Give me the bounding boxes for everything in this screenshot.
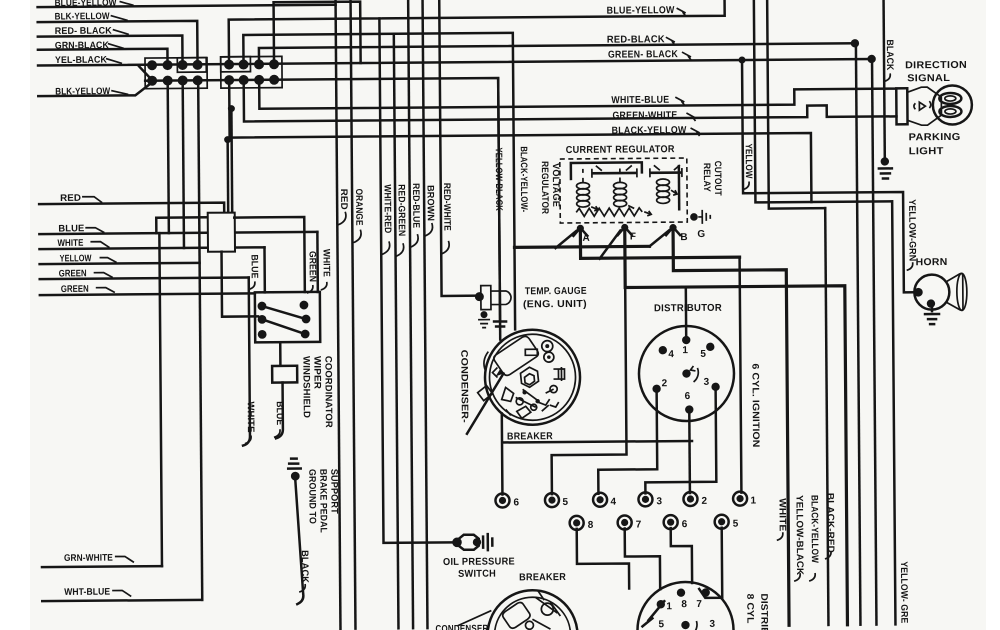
wire WHT-BLUE [42, 600, 202, 601]
svg-text:VOLTAGE: VOLTAGE [550, 163, 561, 207]
ignition terminal rings row1 [495, 491, 756, 508]
wire WHITE-RED vertical to oil switch [379, 18, 452, 543]
label GREEN rotated [307, 251, 318, 293]
svg-text:ORANGE: ORANGE [353, 189, 364, 226]
svg-text:SIGNAL: SIGNAL [907, 73, 950, 84]
svg-text:WHITE-RED: WHITE-RED [381, 184, 392, 233]
wire GREEN-BLACK bus right end [872, 59, 876, 625]
label BLACK-RED rotated right [824, 493, 836, 559]
label YELLOW rotated [743, 144, 754, 190]
label ORANGE rotated [353, 189, 364, 243]
ignition resistor block [208, 213, 235, 252]
horn ground [925, 307, 939, 324]
svg-text:YELLOW: YELLOW [743, 144, 754, 179]
svg-text:BLACK: BLACK [299, 550, 310, 583]
svg-text:DISTRIBUTOR: DISTRIBUTOR [758, 593, 770, 630]
svg-text:GREEN- BLACK: GREEN- BLACK [608, 49, 679, 61]
cutout coil [656, 179, 677, 204]
label BLACK-YELLOW [612, 125, 700, 137]
wire BLUE-YELLOW right run [229, 0, 725, 65]
wire RED-BLUE vertical [408, 0, 413, 628]
svg-text:SWITCH: SWITCH [458, 569, 496, 580]
label CONDENSER rotated [458, 349, 504, 433]
wire right bundle vertical [825, 208, 828, 625]
label OIL PRESSURE SWITCH [443, 556, 515, 580]
svg-text:8: 8 [681, 599, 687, 610]
wire BLK-YELLOW 2 [38, 82, 152, 96]
wire RED [39, 203, 224, 214]
wire BLUE-YELLOW top [38, 5, 336, 7]
temp gauge ground [478, 311, 490, 328]
wire RED-BLACK right run to regulator drop [243, 33, 515, 332]
regulator top wire [571, 162, 642, 179]
svg-text:6: 6 [685, 391, 691, 402]
svg-text:SUPPORT: SUPPORT [328, 469, 339, 514]
terminal B [666, 224, 688, 243]
svg-text:GREEN: GREEN [307, 251, 318, 282]
wire GRN-BLACK label [55, 40, 124, 52]
svg-text:RED: RED [338, 189, 349, 210]
svg-text:BLACK-YELLOW: BLACK-YELLOW [808, 495, 820, 563]
svg-text:2: 2 [662, 378, 668, 389]
wire BLUE label [58, 223, 104, 234]
svg-text:BREAKER: BREAKER [507, 431, 553, 442]
svg-text:WHITE: WHITE [320, 249, 331, 277]
svg-text:CONDENSER: CONDENSER [435, 624, 488, 630]
wire drop to ignition resistor [226, 140, 229, 213]
wire F to ring5 [550, 288, 627, 495]
svg-text:A: A [582, 233, 589, 244]
svg-text:WHITE: WHITE [776, 498, 787, 531]
svg-text:WHITE: WHITE [245, 401, 256, 432]
svg-text:BLACK-RED: BLACK-RED [824, 493, 835, 553]
oil pressure switch [452, 534, 492, 550]
svg-text:6: 6 [682, 519, 688, 530]
wire stub top [274, 2, 361, 65]
wire pin6 to ring2 [688, 413, 691, 493]
wire WHITE label [57, 238, 109, 249]
svg-text:YELLOW-BLACK-: YELLOW-BLACK- [493, 147, 505, 213]
wire diagonals into 8cyl [642, 601, 664, 626]
wire GRN-WHITE riser [159, 233, 162, 566]
label TEMP GAUGE [523, 286, 587, 311]
breaker 2 circle [457, 590, 578, 630]
svg-text:YELLOW- GRE: YELLOW- GRE [898, 561, 909, 623]
svg-text:B: B [680, 232, 687, 243]
svg-text:BREAKER: BREAKER [519, 572, 567, 583]
svg-text:BLUE: BLUE [274, 401, 285, 425]
wire YELLOW run / horn feed [742, 59, 915, 294]
svg-text:CURRENT REGULATOR: CURRENT REGULATOR [566, 144, 676, 156]
label WHITE rotated right [776, 498, 787, 540]
wire RED label [60, 193, 102, 204]
svg-text:BLUE: BLUE [249, 254, 260, 278]
svg-text:DISTRIBUTOR: DISTRIBUTOR [654, 303, 723, 315]
terminal A [573, 225, 589, 244]
connector block C1 [139, 58, 207, 89]
svg-text:YELLOW-GRN: YELLOW-GRN [906, 199, 917, 261]
wire YEL-BLACK row1 bus [38, 59, 872, 66]
temp gauge [475, 285, 511, 309]
svg-text:WIPER: WIPER [311, 356, 322, 389]
wire A to ring 1 [580, 231, 739, 259]
svg-text:CUTOUT: CUTOUT [712, 161, 723, 196]
cutout contact bar [650, 165, 682, 177]
label BROWN rotated [424, 185, 435, 236]
svg-text:BRAKE PEDAL: BRAKE PEDAL [317, 469, 329, 533]
label YELLOW-BLACK rotated right [793, 495, 805, 581]
wire from C1 down left long [198, 85, 202, 600]
wire ORANGE vertical [351, 0, 356, 629]
svg-text:F: F [630, 231, 636, 242]
label BLUE rotated lower [274, 401, 285, 437]
label BLACK rotated right [884, 39, 895, 81]
wire BLACK right [884, 0, 885, 161]
label PARKING LIGHT [909, 132, 961, 157]
regulator coil 2 [613, 182, 634, 208]
wire box to wiper motor [279, 342, 282, 365]
svg-text:8: 8 [588, 520, 594, 531]
label GROUND TO BRAKE PEDAL SUPPORT rotated [306, 469, 340, 533]
svg-text:3: 3 [656, 496, 662, 507]
wire pin1 riser [685, 287, 688, 340]
label YELLOW-GRE rotated right [898, 561, 909, 623]
svg-text:4: 4 [668, 349, 674, 360]
wire BLACK to brake pedal [295, 480, 303, 604]
label WHITE rotated lower [245, 401, 256, 443]
cutout right wire [678, 166, 681, 209]
svg-text:YELLOW-BLACK: YELLOW-BLACK [793, 495, 805, 575]
label BLUE rotated [249, 254, 260, 289]
svg-text:TEMP. GAUGE: TEMP. GAUGE [525, 286, 587, 297]
label WHITE rotated [320, 249, 331, 290]
label BLACK-YELLOW rotated [518, 146, 530, 212]
label WHITE-RED rotated [381, 184, 393, 254]
wire YELLOW [40, 263, 200, 264]
wire pin2 to ring4 [598, 392, 658, 493]
svg-text:GREEN-WHITE: GREEN-WHITE [612, 110, 677, 122]
label BLUE-YELLOW right [607, 5, 686, 17]
wire F diagonal [599, 231, 620, 259]
svg-text:7: 7 [636, 519, 642, 530]
wire GRN-BLACK left [38, 49, 168, 61]
wire BLUE-YELLOW top-left label [55, 0, 134, 9]
svg-text:RED-GREEN: RED-GREEN [395, 184, 406, 236]
wire BLK-YELLOW 2 label [55, 86, 128, 98]
wire relay bottom to box [222, 251, 259, 316]
regulator resistor [576, 208, 651, 217]
distributor 8cyl circle [637, 582, 734, 630]
wiper switch box [255, 292, 320, 343]
wire GRN-WHITE label [64, 552, 134, 564]
ground below BLACK [879, 157, 892, 178]
wiper motor block [272, 366, 297, 383]
svg-text:1: 1 [666, 601, 672, 612]
wire RED-WHITE vertical to temp gauge [439, 0, 479, 296]
wire ring7 to 8cyl [625, 528, 660, 589]
wire GRN-BLACK / RED-BLACK bus right [259, 43, 857, 64]
svg-text:5: 5 [658, 619, 664, 630]
distributor 6cyl circle [639, 326, 735, 422]
svg-text:RELAY: RELAY [701, 163, 712, 193]
svg-text:RED: RED [60, 193, 81, 204]
label VOLTAGE REGULATOR rotated [539, 161, 561, 214]
regulator coil 1 [576, 183, 598, 211]
distributor pins [652, 336, 720, 414]
wire WHITE-BLUE run [259, 75, 896, 109]
label WINDSHIELD WIPER COORDINATOR rotated [300, 356, 334, 428]
svg-text:G: G [697, 229, 705, 240]
svg-text:5: 5 [562, 497, 568, 508]
wire BLK-YELLOW label [55, 11, 128, 23]
svg-text:5: 5 [700, 349, 706, 360]
svg-text:COORDINATOR: COORDINATOR [322, 356, 334, 428]
svg-text:6 CYL. IGNITION: 6 CYL. IGNITION [749, 363, 761, 447]
ignition terminal rings row2 [570, 515, 739, 531]
wire GREEN 2 [40, 293, 255, 295]
direction signal lamp [896, 85, 972, 125]
svg-text:4: 4 [610, 497, 616, 508]
wire B diagonal bus [514, 246, 649, 247]
label YELLOW-BLACK rotated [493, 147, 505, 213]
svg-text:DIRECTION: DIRECTION [905, 60, 967, 71]
label RED-GREEN rotated [395, 184, 407, 256]
junction dot [867, 55, 875, 63]
wire GREEN drop with hook [242, 277, 250, 445]
breaker 6cyl circle [477, 329, 580, 425]
wire BLK-YELLOW [38, 21, 198, 61]
label YELLOW-GRN rotated [906, 199, 918, 270]
wire from C1 to WHITE [183, 85, 184, 248]
svg-text:RED-WHITE: RED-WHITE [441, 183, 452, 231]
label WHITE-BLUE [611, 95, 684, 107]
svg-text:BLACK-YELLOW-: BLACK-YELLOW- [518, 146, 530, 212]
wire breaker to ring6 [502, 412, 693, 494]
label BLACK rotated [299, 550, 310, 592]
wire drop to box top [263, 247, 266, 292]
wire to right bundle drop [767, 0, 825, 209]
svg-text:RED-BLACK: RED-BLACK [607, 34, 666, 45]
svg-text:GROUND TO: GROUND TO [306, 469, 317, 524]
svg-text:BLACK: BLACK [884, 39, 895, 70]
wire GREEN-WHITE run [244, 75, 897, 122]
svg-text:3: 3 [704, 377, 710, 388]
label RED-BLUE rotated [410, 183, 422, 247]
svg-text:WHITE: WHITE [57, 238, 83, 249]
svg-text:GRN-WHITE: GRN-WHITE [64, 553, 113, 564]
svg-text:WHT-BLUE: WHT-BLUE [64, 587, 110, 598]
wire F run [625, 229, 848, 627]
wire ring6b to 8cyl [671, 528, 692, 583]
svg-text:1: 1 [750, 495, 756, 506]
wire RED-BLACK left [38, 35, 183, 61]
junction dot [851, 39, 859, 47]
wire resistor to wiper switch GREEN [234, 217, 305, 293]
connector block C2 [221, 56, 282, 88]
svg-text:BLUE-YELLOW: BLUE-YELLOW [607, 5, 675, 17]
wire ring5b to 8cyl [699, 528, 723, 598]
wire RED-BLACK label [55, 25, 129, 37]
svg-text:BLACK-YELLOW: BLACK-YELLOW [612, 125, 687, 137]
terminal F [618, 224, 636, 243]
wire WHITE [39, 247, 264, 249]
horn [914, 273, 967, 310]
wire RED-BLACK bus right end [856, 43, 861, 624]
wire BROWN vertical [423, 0, 428, 628]
regulator contact bar 1 [592, 165, 637, 177]
label GREEN-WHITE [612, 110, 695, 122]
label GREEN-BLACK right [608, 49, 691, 61]
svg-text:REGULATOR: REGULATOR [539, 161, 550, 214]
svg-text:WINDSHIELD: WINDSHIELD [300, 356, 311, 418]
svg-text:7: 7 [696, 599, 702, 610]
svg-text:6: 6 [513, 497, 519, 508]
wire to wiper switch WHITE [316, 232, 319, 292]
svg-text:WHITE-BLUE: WHITE-BLUE [611, 95, 669, 106]
wire row2 bus [145, 78, 500, 322]
wire WHT-BLUE label [64, 586, 131, 598]
svg-text:(ENG. UNIT): (ENG. UNIT) [523, 299, 587, 311]
svg-text:BROWN: BROWN [424, 185, 435, 221]
svg-text:OIL PRESSURE: OIL PRESSURE [443, 556, 515, 568]
svg-text:GREEN: GREEN [61, 284, 89, 295]
wire GREEN [40, 277, 249, 279]
wire drop to ignition resistor 2 [230, 109, 233, 213]
regulator armature wires [583, 169, 620, 183]
svg-text:5: 5 [733, 519, 739, 530]
wire YELLOW label [60, 253, 117, 264]
regulator dashed box [560, 158, 687, 223]
wire GREEN 2 label [61, 284, 115, 295]
label RED-BLACK right [607, 34, 675, 46]
terminal G ground [690, 210, 710, 224]
svg-text:2: 2 [701, 496, 707, 507]
wire B run [673, 230, 789, 626]
wire from C1 to BLUE [168, 85, 169, 233]
svg-text:8 CYL: 8 CYL [744, 594, 755, 624]
wire RED vertical [336, 0, 341, 629]
wire BLUE [39, 232, 317, 234]
label RED-WHITE rotated [441, 183, 453, 254]
svg-text:RED-BLUE: RED-BLUE [410, 183, 421, 228]
wire below wiper motor with hook [276, 383, 283, 439]
wire BLACK-YELLOW run [229, 76, 811, 207]
svg-text:3: 3 [709, 619, 715, 630]
wire ring8 to 8cyl [577, 528, 629, 588]
svg-text:HORN: HORN [916, 257, 948, 268]
label DIRECTION SIGNAL [905, 60, 967, 84]
wire YEL-BLACK label [55, 54, 122, 66]
svg-text:PARKING: PARKING [909, 132, 961, 143]
label CUTOUT RELAY rotated [701, 161, 723, 196]
wire RED-GREEN vertical [394, 34, 399, 628]
svg-text:1: 1 [682, 345, 688, 356]
svg-text:CONDENSER-: CONDENSER- [458, 350, 470, 423]
ground to brake pedal symbol [288, 459, 301, 481]
wire regulator drop left [498, 79, 500, 340]
wire riser to relay left [156, 217, 208, 233]
label 8 CYL DISTRIBUTOR rotated [744, 593, 770, 630]
svg-text:LIGHT: LIGHT [909, 146, 944, 157]
label RED rotated [338, 189, 349, 225]
wire A diagonal [555, 231, 576, 248]
label BLACK-YELLOW rotated right [808, 495, 820, 581]
wire pin3 to ring3 [645, 391, 717, 494]
wire to YELLOW-GRN drop [754, 0, 896, 625]
wire GRN-WHITE [42, 565, 162, 568]
wire GREEN label [59, 268, 113, 279]
